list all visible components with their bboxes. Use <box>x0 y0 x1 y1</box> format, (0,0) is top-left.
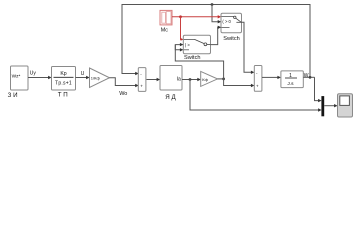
svg-text:Wz*: Wz* <box>12 73 21 79</box>
svg-text:J.s: J.s <box>287 81 294 87</box>
svg-text:Tp.s+1: Tp.s+1 <box>55 80 72 86</box>
svg-text:Wo: Wo <box>119 91 127 97</box>
mux (black bar) <box>321 96 324 116</box>
svg-text:( > 0: ( > 0 <box>222 19 231 24</box>
svg-text:( >: ( > <box>185 42 191 47</box>
block ЗИ (setpoint Wz*) <box>11 66 29 90</box>
junction gain2 output <box>222 78 225 81</box>
svg-text:Т П: Т П <box>58 91 68 98</box>
wire ТП to gain1 <box>76 77 87 79</box>
wire Mc branch down to Switch2 input 1 (red) <box>180 17 183 40</box>
wire Mc to Switch1 input 1 (red) <box>172 16 218 18</box>
svg-text:Switch: Switch <box>184 55 200 61</box>
gain2 (Кф triangle) <box>201 71 218 86</box>
svg-text:Mc: Mc <box>161 27 168 33</box>
block ЯД (motor armature) <box>160 66 182 91</box>
svg-text:+: + <box>140 83 143 88</box>
block transfer fcn 1/J.s <box>281 71 303 88</box>
svg-text:W: W <box>304 73 309 79</box>
block Switch1 (upper) <box>221 13 242 33</box>
wire gain2 down-branch to sum2 input 2 <box>224 79 252 86</box>
svg-text:+: + <box>256 83 259 88</box>
svg-text:1/Кф: 1/Кф <box>91 76 101 81</box>
wire ЯД to gain2 <box>182 79 198 81</box>
wire stub to Switch2 input 3 <box>175 45 180 50</box>
wire Switch2 output to Switch1 input 3 <box>211 27 219 44</box>
svg-text:U: U <box>81 71 85 77</box>
wire gain1 to sum1 input 2 (Wo) <box>110 78 136 86</box>
block Switch2 (lower) <box>183 35 210 54</box>
wire mux to scope <box>324 105 334 107</box>
junction Ia <box>189 78 192 81</box>
wire gain2 up-branch to Switch2 inputs 2 and 3 <box>175 45 223 79</box>
svg-text:Ia: Ia <box>177 76 181 82</box>
wire gain2 output to junction <box>218 78 224 80</box>
junction W <box>309 76 312 79</box>
svg-text:Switch: Switch <box>223 36 239 42</box>
wire W to Switch1 input 2 <box>212 5 218 22</box>
junction top line to switch criterion <box>211 3 214 6</box>
wire ЗИ to ТП <box>28 77 49 79</box>
wire sum1 to ЯД <box>147 79 158 81</box>
svg-text:Кф: Кф <box>202 77 208 82</box>
block ТП (transfer fcn Kp/(Tp.s+1)) <box>52 67 76 91</box>
block scope <box>338 94 353 117</box>
svg-text:Uy: Uy <box>30 70 37 76</box>
wire Switch1 output down to sum2 input 1 <box>242 22 252 72</box>
wire W down-branch to mux input 1 <box>315 77 319 100</box>
svg-text:З И: З И <box>8 92 18 99</box>
wire top feedback W (from node W up, across top, down to sum1 input 1) <box>122 5 310 78</box>
sum1 (rect sum block) <box>138 68 146 92</box>
wire W output of 1/J.s <box>303 76 314 78</box>
gain1 (1/Кф triangle) <box>90 68 110 88</box>
sum2 (rect sum block) <box>254 66 262 92</box>
wire Ia branch down along bottom to mux input 2 <box>190 80 319 111</box>
block Mc (step source, red) <box>160 10 172 25</box>
junction red <box>179 15 182 18</box>
svg-text:Kp: Kp <box>60 71 66 77</box>
svg-text:Я Д: Я Д <box>165 94 176 101</box>
wire sum2 to transfer fcn 1/J.s <box>262 76 278 78</box>
